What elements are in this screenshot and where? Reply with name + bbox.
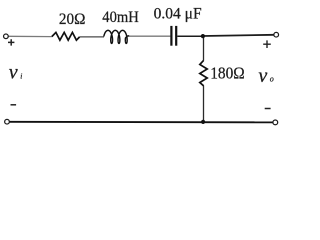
svg-text:40mH: 40mH xyxy=(102,9,139,26)
svg-text:180Ω: 180Ω xyxy=(210,63,245,82)
svg-text:i: i xyxy=(20,71,22,80)
svg-text:v: v xyxy=(9,62,18,84)
svg-text:v: v xyxy=(258,65,267,87)
svg-text:0.04 μF: 0.04 μF xyxy=(154,6,202,23)
svg-text:20Ω: 20Ω xyxy=(59,11,86,28)
svg-text:o: o xyxy=(270,75,274,84)
